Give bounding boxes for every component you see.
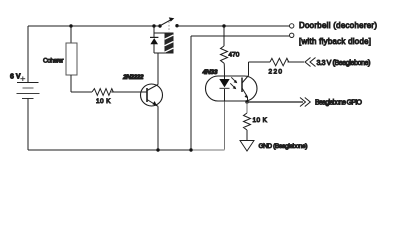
resistor R2 470 vertical (221, 26, 228, 80)
chevron GPIO (300, 98, 310, 107)
wire relay drop (153, 26, 155, 37)
resistor R1 10K horizontal (92, 89, 113, 96)
wire bottom rail gray end (191, 149, 225, 151)
relay K1 (150, 22, 173, 54)
resistor R4 10K vertical (244, 102, 251, 140)
node doorbell ground junction (189, 148, 192, 151)
coil hatch white slits (165, 35, 174, 52)
ground symbol (240, 141, 254, 152)
LED cathode wire (224, 89, 226, 102)
photo collector (242, 62, 249, 83)
wire left rail upper (27, 26, 29, 83)
svg-text:6 V: 6 V (10, 74, 21, 81)
wire coherer to resistor (71, 91, 92, 93)
optoisolator U1 4N33 (206, 62, 258, 150)
wire doorbell return vertical (190, 36, 192, 150)
svg-text:2N2222: 2N2222 (122, 74, 144, 81)
chevron 3.3V (305, 58, 316, 67)
phototransistor bar (241, 78, 243, 93)
battery B1 6V (17, 83, 40, 99)
opto arrow 2 (230, 83, 235, 88)
terminal T1 circle (290, 24, 294, 28)
terminal T2 circle (290, 33, 294, 37)
svg-text:470: 470 (229, 52, 240, 59)
svg-text:Coherer: Coherer (43, 58, 64, 65)
wire 3.3V line (249, 61, 271, 63)
node GPIO junction (245, 100, 248, 103)
wire doorbell return horizontal (191, 35, 289, 37)
switch lever arrowhead (169, 17, 175, 21)
svg-text:10 K: 10 K (96, 98, 111, 105)
wire coil top stub (154, 32, 165, 34)
svg-text:Doorbell (decoherer): Doorbell (decoherer) (299, 21, 377, 30)
svg-text:10 K: 10 K (253, 117, 268, 124)
wire relay bottom bus (154, 52, 173, 54)
battery plus sign (20, 76, 25, 81)
wire to 3.3V chevron (288, 61, 305, 63)
node 470 junction (222, 24, 225, 27)
svg-text:4N33: 4N33 (202, 69, 218, 76)
svg-text:220: 220 (269, 69, 283, 76)
dashed mechanical link (168, 22, 170, 34)
wire bottom rail (28, 149, 191, 151)
wire left rail lower (27, 99, 29, 151)
node relay branch junction (152, 24, 155, 27)
LED anode wire inside (224, 76, 226, 80)
switch S1 (158, 17, 178, 27)
wire top rail right segment (177, 25, 289, 27)
resistor R3 220 (270, 58, 289, 66)
relay coil box (165, 33, 173, 53)
LED cathode bar (220, 87, 230, 89)
svg-text:GND (Beaglebone): GND (Beaglebone) (259, 143, 308, 150)
photo emitter (242, 88, 248, 102)
switch lever (161, 20, 172, 26)
wire GPIO line (247, 101, 303, 103)
node emitter-ground junction (156, 148, 159, 151)
node coherer top junction (69, 24, 72, 27)
svg-text:Beaglebone GPIO: Beaglebone GPIO (315, 100, 363, 107)
switch pivot dot (158, 24, 161, 27)
svg-text:3.3 V (Beaglebone): 3.3 V (Beaglebone) (317, 60, 371, 67)
flyback diode D1 triangle (150, 38, 158, 44)
opto arrow 1 (231, 77, 236, 82)
transistor Q1 2N2222 (141, 53, 163, 150)
wire base (111, 91, 147, 93)
svg-text:[with flyback diode]: [with flyback diode] (299, 37, 371, 46)
flyback diode D1 cathode bar (150, 36, 158, 38)
switch right contact dot (175, 24, 178, 27)
wire top rail left segment (28, 25, 160, 27)
LED triangle (219, 79, 229, 87)
wire diode anode (153, 44, 155, 53)
coherer component (66, 26, 77, 92)
